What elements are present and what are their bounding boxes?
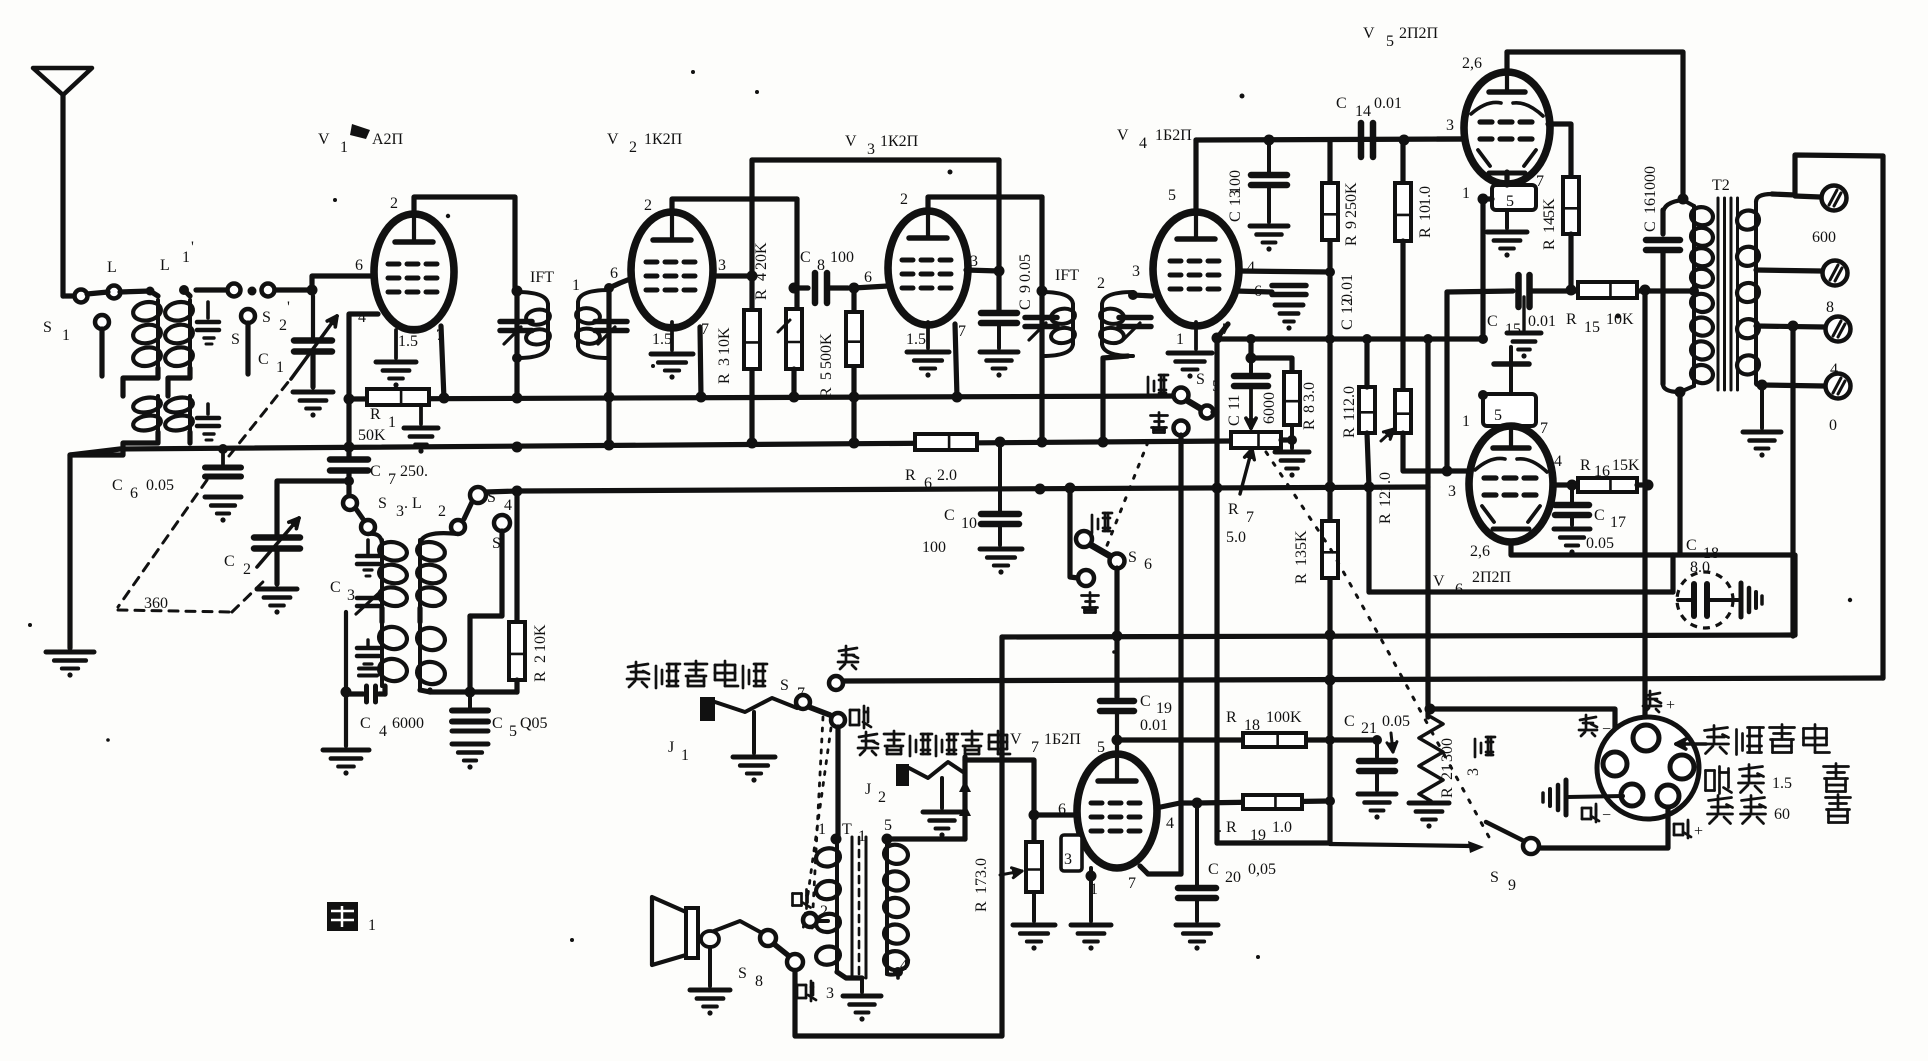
svg-text:1000: 1000 — [1642, 166, 1659, 198]
svg-text:C: C — [492, 715, 503, 732]
svg-text:15: 15 — [1584, 319, 1600, 336]
svg-text:C: C — [1487, 313, 1498, 330]
svg-text:1.0: 1.0 — [1272, 819, 1292, 836]
svg-text:R: R — [1226, 709, 1237, 726]
svg-text:2: 2 — [532, 655, 549, 663]
svg-text:3: 3 — [826, 985, 834, 1002]
svg-text:7: 7 — [1128, 875, 1136, 892]
svg-text:+: + — [1666, 697, 1675, 714]
svg-text:5K: 5K — [1541, 198, 1558, 218]
svg-text:2: 2 — [820, 903, 828, 920]
svg-text:2,6: 2,6 — [1462, 55, 1482, 72]
svg-text:20: 20 — [1225, 869, 1241, 886]
svg-text:6: 6 — [924, 475, 932, 492]
svg-text:5K: 5K — [1293, 530, 1310, 550]
svg-text:0.05: 0.05 — [1382, 713, 1410, 730]
svg-text:7: 7 — [958, 323, 966, 340]
svg-text:0.01: 0.01 — [1140, 717, 1168, 734]
svg-text:6: 6 — [610, 265, 618, 282]
svg-text:2: 2 — [878, 789, 886, 806]
svg-text:4: 4 — [1139, 135, 1147, 152]
svg-text:4: 4 — [1166, 815, 1174, 832]
svg-text:1.5: 1.5 — [906, 331, 926, 348]
svg-text:3: 3 — [1465, 768, 1482, 776]
svg-text:1.5: 1.5 — [398, 333, 418, 350]
svg-text:1Б2П: 1Б2П — [1155, 127, 1192, 144]
svg-text:−: − — [1602, 721, 1611, 738]
svg-text:3: 3 — [1064, 851, 1072, 868]
svg-text:1.5: 1.5 — [652, 331, 672, 348]
svg-text:250.: 250. — [400, 463, 428, 480]
svg-text:3: 3 — [1132, 263, 1140, 280]
svg-text:T: T — [842, 821, 852, 838]
svg-text:11: 11 — [1341, 406, 1358, 421]
svg-text:S: S — [43, 319, 52, 336]
svg-text:1: 1 — [572, 277, 580, 294]
svg-text:0,05: 0,05 — [1248, 861, 1276, 878]
svg-text:Q05: Q05 — [520, 715, 548, 732]
svg-text:R: R — [1343, 235, 1360, 246]
svg-text:C: C — [330, 579, 341, 596]
svg-text:−: − — [1602, 807, 1611, 824]
svg-text:10K: 10K — [716, 327, 733, 355]
svg-text:5: 5 — [1494, 407, 1502, 424]
svg-text:0: 0 — [1829, 417, 1837, 434]
svg-text:3.0: 3.0 — [973, 858, 990, 878]
svg-text:J: J — [865, 781, 871, 798]
svg-text:4: 4 — [379, 723, 387, 740]
svg-text:S: S — [231, 331, 240, 348]
svg-text:S: S — [262, 309, 271, 326]
svg-text:S: S — [738, 965, 747, 982]
svg-text:3: 3 — [347, 587, 355, 604]
svg-text:1К2П: 1К2П — [880, 133, 919, 150]
svg-text:1: 1 — [276, 359, 284, 376]
svg-text:R: R — [1417, 227, 1434, 238]
svg-text:21: 21 — [1439, 764, 1456, 780]
svg-text:V: V — [607, 131, 619, 148]
svg-text:0.01: 0.01 — [1528, 313, 1556, 330]
svg-text:5: 5 — [1097, 739, 1105, 756]
svg-text:C: C — [800, 249, 811, 266]
svg-text:1: 1 — [818, 821, 826, 838]
svg-text:100K: 100K — [1266, 709, 1302, 726]
svg-text:6: 6 — [864, 269, 872, 286]
svg-text:50K: 50K — [358, 427, 386, 444]
svg-text:R: R — [1341, 427, 1358, 438]
svg-text:5: 5 — [1168, 187, 1176, 204]
svg-text:R: R — [716, 373, 733, 384]
svg-text:20K: 20K — [753, 242, 770, 270]
svg-text:8: 8 — [817, 257, 825, 274]
svg-text:9: 9 — [1343, 221, 1360, 229]
svg-text:14: 14 — [1541, 217, 1558, 233]
svg-text:1: 1 — [388, 414, 396, 431]
svg-text:2: 2 — [644, 197, 652, 214]
svg-text:R: R — [1377, 513, 1394, 524]
svg-text:1: 1 — [1462, 185, 1470, 202]
svg-text:7: 7 — [1540, 420, 1548, 437]
svg-text:6: 6 — [130, 485, 138, 502]
svg-text:360: 360 — [144, 595, 168, 612]
svg-text:C: C — [370, 463, 381, 480]
svg-text:V: V — [1433, 573, 1445, 590]
svg-text:. L: . L — [404, 495, 422, 512]
svg-text:1: 1 — [1462, 413, 1470, 430]
svg-text:C: C — [1339, 319, 1356, 330]
svg-text:R: R — [1439, 787, 1456, 798]
svg-text:12: 12 — [1377, 491, 1394, 507]
svg-text:': ' — [287, 299, 290, 316]
svg-text:C: C — [258, 351, 269, 368]
svg-text:3: 3 — [1446, 117, 1454, 134]
svg-text:250K: 250K — [1343, 182, 1360, 218]
svg-text:2П2П: 2П2П — [1399, 25, 1439, 42]
svg-text:18: 18 — [1244, 717, 1260, 734]
svg-text:16: 16 — [1642, 198, 1659, 214]
svg-text:8: 8 — [755, 973, 763, 990]
svg-text:5: 5 — [818, 372, 835, 380]
svg-text:1: 1 — [1176, 331, 1184, 348]
svg-text:V: V — [1117, 127, 1129, 144]
svg-text:L: L — [160, 257, 170, 274]
svg-text:R: R — [753, 289, 770, 300]
svg-text:19: 19 — [1156, 700, 1172, 717]
svg-text:6: 6 — [355, 257, 363, 274]
svg-text:C: C — [1226, 415, 1243, 426]
svg-text:100: 100 — [922, 539, 946, 556]
svg-text:IFT: IFT — [1055, 267, 1079, 284]
svg-text:5: 5 — [1506, 193, 1514, 210]
svg-text:C: C — [1227, 211, 1244, 222]
svg-text:+: + — [1694, 823, 1703, 840]
svg-text:11: 11 — [1226, 395, 1243, 410]
svg-text:60: 60 — [1774, 806, 1790, 823]
svg-text:1.0: 1.0 — [1417, 186, 1434, 206]
svg-text:6: 6 — [1144, 556, 1152, 573]
svg-text:S: S — [1490, 869, 1499, 886]
svg-text:R: R — [370, 406, 381, 423]
svg-text:R: R — [905, 467, 916, 484]
svg-text:2,6: 2,6 — [1470, 543, 1490, 560]
svg-text:0.05: 0.05 — [146, 477, 174, 494]
svg-text:0.05: 0.05 — [1586, 535, 1614, 552]
svg-text:4': 4' — [900, 957, 911, 974]
svg-text:0.01: 0.01 — [1374, 95, 1402, 112]
svg-text:V: V — [1363, 25, 1375, 42]
svg-text:8.0: 8.0 — [1690, 559, 1710, 576]
svg-text:3: 3 — [1448, 483, 1456, 500]
svg-text:10K: 10K — [1606, 311, 1634, 328]
svg-text:А2П: А2П — [372, 131, 404, 148]
svg-text:5: 5 — [509, 723, 517, 740]
svg-text:1: 1 — [62, 327, 70, 344]
svg-text:100: 100 — [830, 249, 854, 266]
svg-text:C: C — [112, 477, 123, 494]
svg-text:3: 3 — [718, 257, 726, 274]
svg-text:10: 10 — [1417, 205, 1434, 221]
svg-text:R: R — [818, 387, 835, 398]
svg-text:R: R — [1580, 457, 1591, 474]
svg-text:10: 10 — [961, 515, 977, 532]
svg-text:16: 16 — [1594, 463, 1610, 480]
svg-text:1Б2П: 1Б2П — [1044, 731, 1081, 748]
svg-text:R: R — [1566, 311, 1577, 328]
svg-text:': ' — [191, 239, 194, 256]
svg-text:C: C — [1017, 299, 1034, 310]
svg-text:0.05: 0.05 — [1017, 254, 1034, 282]
svg-text:7: 7 — [1246, 509, 1254, 526]
svg-text:2: 2 — [438, 503, 446, 520]
svg-text:2: 2 — [1097, 275, 1105, 292]
svg-text:S: S — [780, 677, 789, 694]
svg-text:2П2П: 2П2П — [1472, 569, 1512, 586]
svg-text:13: 13 — [1293, 550, 1310, 566]
svg-text:1: 1 — [368, 917, 376, 934]
svg-text:R: R — [1301, 419, 1318, 430]
svg-text:4: 4 — [753, 273, 770, 281]
svg-text:C: C — [1140, 693, 1151, 710]
svg-text:5: 5 — [1212, 378, 1220, 395]
svg-text:3.0: 3.0 — [1301, 382, 1318, 402]
svg-text:17: 17 — [1610, 514, 1626, 531]
svg-text:2: 2 — [629, 139, 637, 156]
svg-text:1.5: 1.5 — [1772, 775, 1792, 792]
svg-text:10K: 10K — [532, 624, 549, 652]
svg-text:3: 3 — [970, 253, 978, 270]
svg-text:15K: 15K — [1612, 457, 1640, 474]
svg-text:6000: 6000 — [1261, 392, 1278, 424]
svg-text:14: 14 — [1355, 103, 1371, 120]
svg-text:C: C — [360, 715, 371, 732]
svg-text:2.0: 2.0 — [937, 467, 957, 484]
svg-text:IFT: IFT — [530, 269, 554, 286]
svg-text:1: 1 — [340, 139, 348, 156]
svg-text:600: 600 — [1812, 229, 1836, 246]
svg-text:1К2П: 1К2П — [644, 131, 683, 148]
svg-text:9: 9 — [1508, 877, 1516, 894]
svg-text:0.01: 0.01 — [1339, 274, 1356, 302]
svg-text:100: 100 — [1227, 170, 1244, 194]
svg-text:R: R — [973, 901, 990, 912]
svg-text:V: V — [318, 131, 330, 148]
svg-text:C: C — [944, 507, 955, 524]
svg-text:S: S — [1196, 371, 1205, 388]
svg-text:6000: 6000 — [392, 715, 424, 732]
svg-text:7: 7 — [1031, 739, 1039, 756]
svg-text:V: V — [845, 133, 857, 150]
svg-text:J: J — [668, 739, 674, 756]
svg-text:8: 8 — [1301, 405, 1318, 413]
svg-text:1: 1 — [182, 249, 190, 266]
svg-text:8: 8 — [1826, 299, 1834, 316]
svg-text:2: 2 — [279, 317, 287, 334]
svg-text:S: S — [378, 495, 387, 512]
svg-text:3: 3 — [867, 141, 875, 158]
svg-text:R: R — [1293, 573, 1310, 584]
svg-text:R: R — [532, 671, 549, 682]
svg-text:21: 21 — [1361, 720, 1377, 737]
svg-text:5: 5 — [884, 817, 892, 834]
svg-text:. R: . R — [1218, 819, 1237, 836]
svg-text:R: R — [1228, 501, 1239, 518]
svg-text:5.0: 5.0 — [1226, 529, 1246, 546]
svg-text:S: S — [1128, 549, 1137, 566]
svg-text:V: V — [1010, 731, 1022, 748]
svg-text:L: L — [107, 259, 117, 276]
svg-text:7: 7 — [388, 471, 396, 488]
svg-text:9: 9 — [1017, 285, 1034, 293]
svg-text:1.0: 1.0 — [1377, 472, 1394, 492]
svg-text:300: 300 — [1439, 738, 1456, 762]
svg-text:C: C — [224, 553, 235, 570]
svg-text:2: 2 — [900, 191, 908, 208]
svg-text:T2: T2 — [1712, 177, 1730, 194]
svg-text:C: C — [1594, 507, 1605, 524]
svg-text:1: 1 — [681, 747, 689, 764]
svg-text:C: C — [1344, 713, 1355, 730]
svg-text:C: C — [1642, 221, 1659, 232]
svg-text:2: 2 — [390, 195, 398, 212]
svg-text:2: 2 — [243, 561, 251, 578]
svg-text:3: 3 — [716, 358, 733, 366]
svg-text:R: R — [1541, 239, 1558, 250]
svg-text:C: C — [1208, 861, 1219, 878]
svg-text:500K: 500K — [818, 333, 835, 369]
svg-text:C: C — [1686, 537, 1697, 554]
svg-text:5: 5 — [1386, 33, 1394, 50]
svg-text:4: 4 — [1554, 453, 1562, 470]
svg-text:17: 17 — [973, 878, 990, 894]
svg-text:C: C — [1336, 95, 1347, 112]
svg-text:4: 4 — [1830, 361, 1838, 378]
svg-text:4: 4 — [504, 497, 512, 514]
svg-text:3: 3 — [396, 503, 404, 520]
svg-text:2.0: 2.0 — [1341, 386, 1358, 406]
